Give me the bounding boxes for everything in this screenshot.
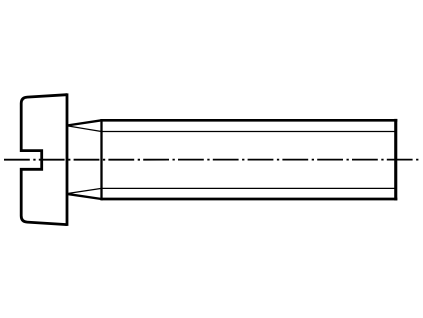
thread start vertical line [100,119,102,200]
thread run-out cone, bottom thick line [67,194,102,199]
screw head outline with slot notch [21,95,67,225]
centerline (dash-dot axis) [4,159,420,161]
shank major diameter, bottom line [102,198,398,201]
thread root diameter, top thin line [102,131,396,133]
head bearing face (right face of head) [66,93,69,226]
screw end face line [394,119,397,200]
thread run-out, bottom thin line [68,188,102,193]
thread run-out cone, top thick line [67,120,102,125]
shank major diameter, top line [102,119,398,122]
thread root diameter, bottom thin line [102,187,396,189]
thread run-out, top thin line [68,126,102,132]
